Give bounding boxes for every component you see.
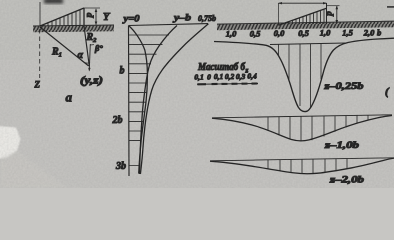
zero line z=1,0b	[212, 115, 392, 118]
b dimension line	[279, 2, 327, 4]
left extension line	[278, 3, 280, 25]
dark dash top-right corner	[387, 6, 394, 8]
scale bar	[197, 83, 258, 86]
p dimension arrow right	[336, 6, 338, 23]
white page-fold patch bottom-left	[0, 126, 21, 159]
load hatch arrows	[44, 10, 80, 26]
R2 ray	[84, 26, 89, 66]
alpha angle arc	[81, 60, 90, 63]
light streak under patch	[0, 151, 68, 188]
ground surface line right	[217, 21, 394, 24]
hatches z=0,25b	[279, 44, 322, 109]
hatches z=2,0b	[268, 159, 347, 174]
p dimension cap right	[327, 5, 340, 7]
reference tick foot	[90, 44, 94, 46]
curve y-b	[139, 26, 177, 175]
dark cropped mark top edge	[44, 0, 63, 4]
curve z=1,0b	[212, 116, 392, 141]
p dimension arrow line	[95, 9, 97, 25]
load hatch arrows right	[286, 9, 325, 24]
curve y=0	[129, 26, 148, 174]
load triangle hypotenuse right	[279, 8, 327, 25]
zero line z=0,25b	[270, 43, 346, 45]
load triangle right edge	[326, 3, 328, 24]
load triangle right edge	[83, 8, 85, 26]
vertical reference with arrow at point	[89, 44, 90, 71]
p dimension cap line	[84, 7, 100, 9]
depth axis	[128, 26, 131, 177]
top surface line	[129, 24, 209, 26]
depth grid ladder	[129, 35, 170, 166]
ground surface line left	[33, 25, 114, 26]
R1 ray	[40, 27, 89, 66]
load triangle hypotenuse	[40, 8, 84, 26]
z axis dashed below ground	[39, 29, 41, 78]
z axis line above ground	[39, 2, 41, 26]
zero line z=2,0b	[210, 158, 394, 161]
hatches z=1,0b	[268, 115, 368, 141]
ground hatch band left	[33, 26, 114, 33]
curve z=2,0b	[210, 158, 394, 174]
curve z=0,25b	[214, 38, 394, 111]
ground hatch band right	[217, 22, 394, 31]
paper background	[0, 0, 394, 188]
curve 0,75b	[140, 24, 208, 174]
